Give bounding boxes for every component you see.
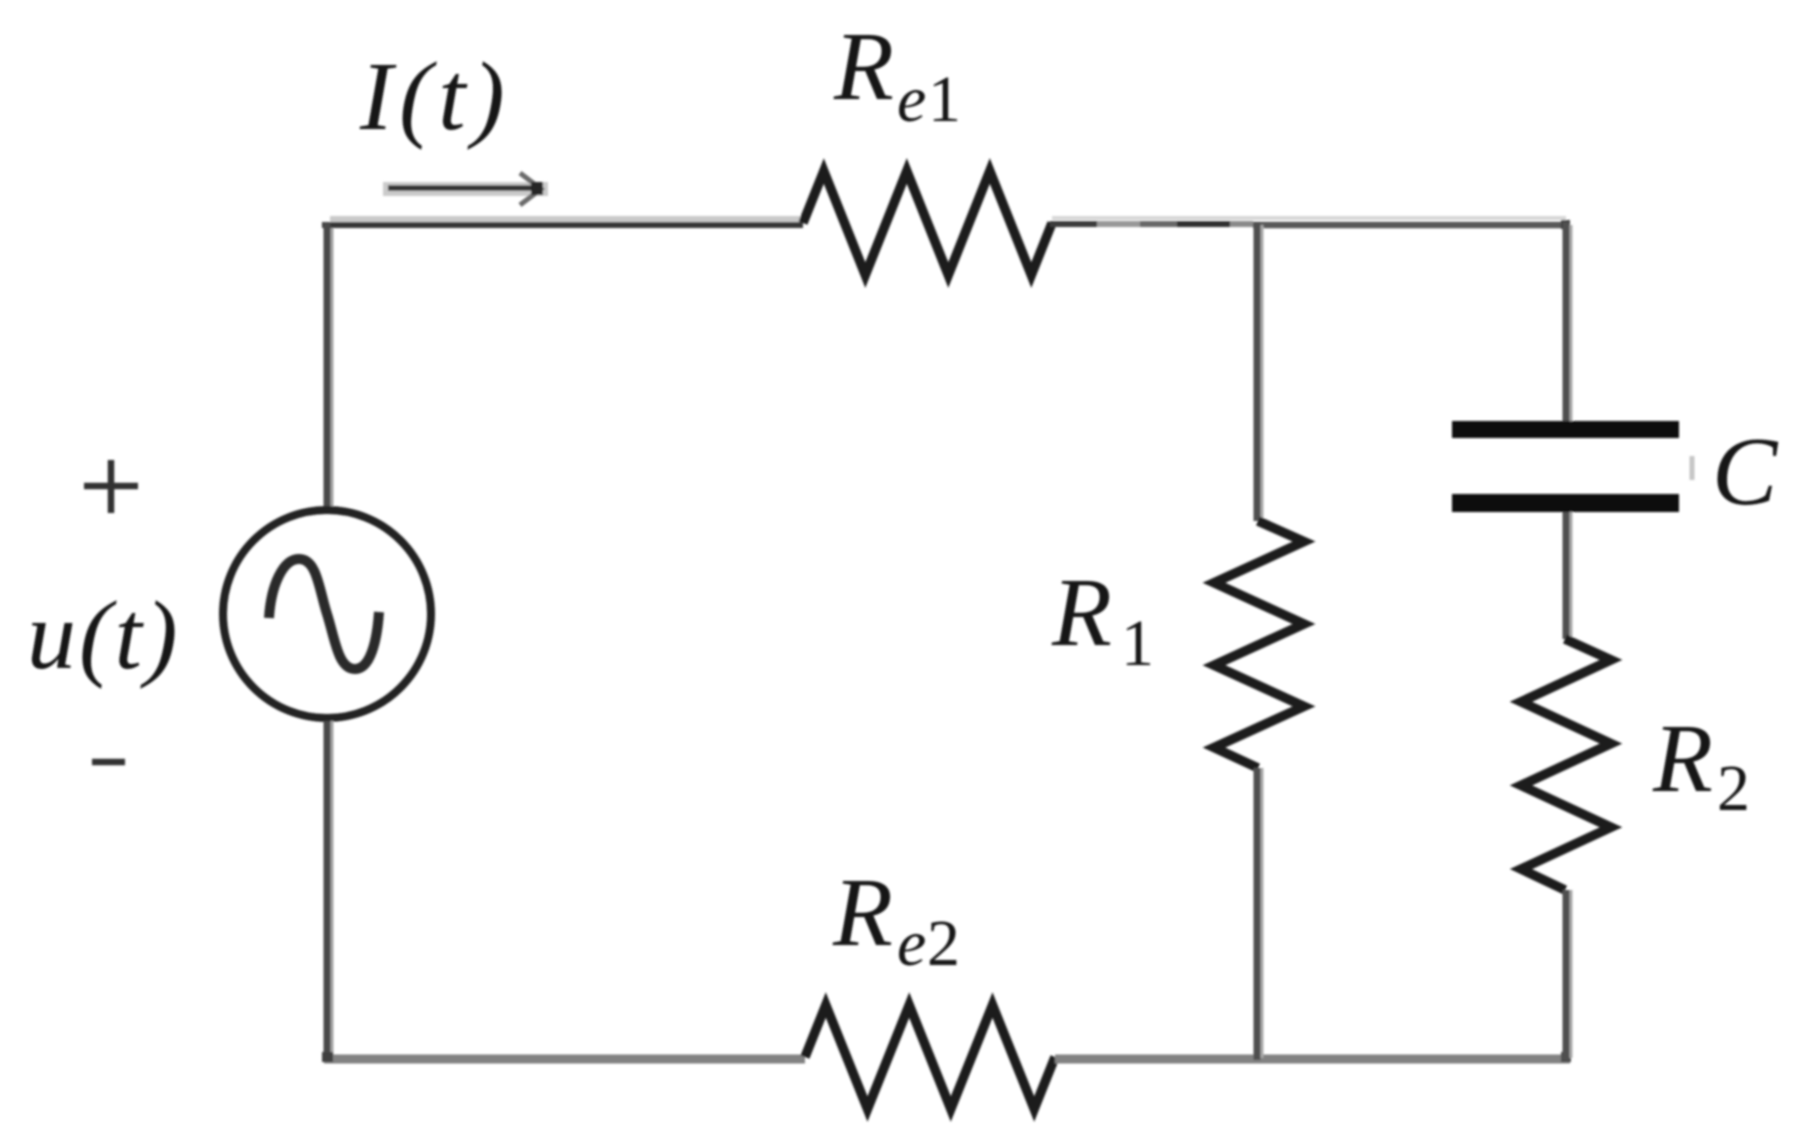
- svg-text:e: e: [897, 907, 926, 980]
- svg-text:R: R: [1051, 559, 1112, 667]
- label: resistor R1 reference designator: [1051, 559, 1154, 680]
- current direction arrow for I(t): [383, 173, 548, 205]
- capacitor C bottom plate: [1452, 494, 1679, 512]
- resistor Re2: [805, 1005, 1055, 1109]
- wire: middle branch vertical from node A down to R1: [1257, 222, 1262, 521]
- svg-text:u(t): u(t): [27, 582, 181, 690]
- resistor R2: [1521, 639, 1611, 890]
- polarity plus sign of source: [84, 460, 138, 513]
- svg-text:2: 2: [927, 907, 960, 980]
- wire: right branch vertical from R2 to bottom-right corner: [1566, 890, 1571, 1060]
- label: resistor Re2 reference designator: [832, 859, 960, 980]
- wire: left vertical from top corner down to source top terminal: [327, 222, 332, 507]
- AC voltage source u(t): sine glyph: [269, 559, 379, 669]
- wire: middle branch vertical from R1 down to bottom node B: [1257, 768, 1262, 1060]
- AC voltage source u(t): circle body: [223, 510, 431, 718]
- label: resistor R2 reference designator: [1652, 705, 1750, 825]
- node: bottom-left corner junction blob: [322, 1052, 333, 1062]
- resistor Re1: [803, 171, 1052, 275]
- svg-text:I(t): I(t): [359, 43, 511, 151]
- svg-text:1: 1: [928, 63, 961, 136]
- svg-text:R: R: [1652, 705, 1713, 813]
- label: resistor Re1 reference designator: [833, 13, 961, 136]
- wire: top horizontal from Re1 through node A to top-right corner: [1050, 218, 1566, 225]
- wire: left vertical from source bottom terminal to bottom-left corner: [327, 721, 332, 1060]
- wire: bottom horizontal from Re2 to right: [1055, 1055, 1570, 1064]
- wire: right branch vertical between capacitor C and R2: [1566, 512, 1571, 639]
- faint artifact tick left of label C: [1690, 456, 1695, 480]
- capacitor C top plate: [1452, 421, 1679, 438]
- resistor R1: [1214, 521, 1304, 768]
- svg-text:R: R: [833, 13, 894, 121]
- svg-text:1: 1: [1121, 607, 1154, 680]
- svg-text:2: 2: [1717, 752, 1750, 825]
- polarity minus sign of source: [92, 759, 125, 766]
- svg-text:R: R: [832, 859, 893, 967]
- wire: bottom horizontal from left corner to Re2: [324, 1055, 805, 1064]
- node: top-right corner junction blob: [1561, 220, 1570, 229]
- svg-text:C: C: [1712, 418, 1779, 526]
- wire: right branch vertical from top-right corner down to capacitor C: [1566, 222, 1571, 421]
- wire: top horizontal segment from left corner to Re1: [322, 219, 803, 225]
- node: bottom-right corner junction blob: [1561, 1052, 1571, 1062]
- svg-text:e: e: [897, 63, 926, 136]
